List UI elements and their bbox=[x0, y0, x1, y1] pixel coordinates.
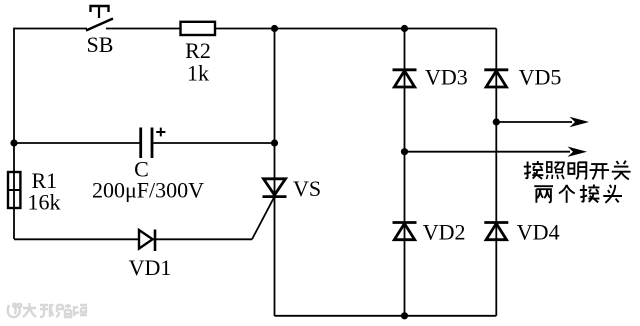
resistor R1 body bbox=[8, 172, 20, 208]
node: bottom junction at bridge left bbox=[401, 312, 408, 319]
diode VD2 cathode bar bbox=[393, 221, 417, 224]
svg-text:VD3: VD3 bbox=[425, 65, 468, 90]
diode VD5 cathode bar bbox=[484, 68, 508, 71]
thyristor VS triangle bbox=[264, 179, 286, 195]
wire: bottom-left horizontal to VD1 bbox=[14, 238, 139, 240]
diode VD3 triangle bbox=[394, 71, 414, 87]
resistor R2 body bbox=[181, 22, 216, 35]
node: top junction at bridge left bbox=[401, 25, 408, 32]
svg-text:1k: 1k bbox=[187, 61, 209, 86]
wire: upper output arrow shaft bbox=[496, 121, 572, 123]
diode VD4 triangle bbox=[486, 224, 506, 240]
annotation line 2: 两个接头 bbox=[534, 184, 622, 202]
diode VD3 cathode bar bbox=[393, 68, 417, 71]
diode VD4 cathode bar bbox=[484, 221, 508, 224]
wire: R2 to top-right corner bbox=[215, 28, 496, 30]
switch SB blade bbox=[86, 19, 113, 31]
arrowhead upper bbox=[570, 117, 590, 127]
wire: VD1 to gate bend bbox=[155, 238, 252, 240]
thyristor VS cathode bar bbox=[263, 195, 287, 198]
watermark logo bbox=[8, 303, 22, 317]
wire: top-left horizontal to switch bbox=[14, 28, 87, 30]
diode VD1 triangle bbox=[139, 230, 153, 249]
node: left junction at capacitor row bbox=[10, 139, 17, 146]
capacitor C right plate bbox=[151, 128, 154, 159]
switch SB actuator stem bbox=[98, 6, 100, 18]
switch SB actuator cap bbox=[91, 6, 109, 12]
svg-text:VD5: VD5 bbox=[519, 65, 562, 90]
wire: capacitor row right segment bbox=[153, 142, 274, 144]
wire: bridge right vertical bbox=[495, 29, 497, 316]
watermark text bbox=[23, 303, 87, 317]
diode VD2 triangle bbox=[394, 224, 414, 240]
node: middle junction at capacitor row bbox=[271, 139, 278, 146]
diode VD5 triangle bbox=[486, 71, 506, 87]
svg-text:VD1: VD1 bbox=[129, 255, 172, 280]
wire: middle vertical rail bbox=[274, 29, 276, 317]
wire: left vertical rail bbox=[13, 28, 15, 239]
resistor R1 middle line bbox=[8, 189, 20, 191]
node: output junction on bridge left bbox=[401, 148, 408, 155]
svg-text:VD4: VD4 bbox=[517, 220, 560, 245]
svg-text:VS: VS bbox=[293, 176, 321, 201]
wire: switch to resistor R2 bbox=[106, 28, 180, 30]
thyristor VS gate lead bbox=[252, 197, 275, 240]
capacitor plus sign bbox=[156, 128, 165, 137]
svg-text:SB: SB bbox=[87, 32, 114, 57]
svg-text:R2: R2 bbox=[185, 38, 211, 63]
annotation line 1: 接照明开关 bbox=[524, 161, 631, 180]
svg-text:VD2: VD2 bbox=[423, 220, 466, 245]
wire: lower output arrow shaft bbox=[405, 151, 571, 153]
svg-text:200μF/300V: 200μF/300V bbox=[92, 177, 204, 202]
node: top junction at middle vertical bbox=[271, 25, 278, 32]
arrowhead lower bbox=[568, 147, 588, 157]
wire: capacitor row left segment bbox=[14, 142, 140, 144]
wire: bottom horizontal rail bbox=[275, 315, 497, 317]
node: output junction on bridge right bbox=[493, 118, 500, 125]
svg-text:16k: 16k bbox=[28, 189, 61, 214]
capacitor C left plate bbox=[139, 128, 142, 159]
wire: bridge left vertical bbox=[404, 29, 406, 316]
diode VD1 cathode bar bbox=[154, 230, 157, 252]
